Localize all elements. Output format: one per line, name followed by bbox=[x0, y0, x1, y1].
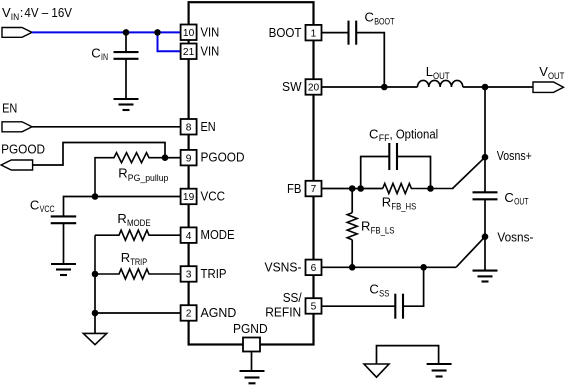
svg-text:OUT: OUT bbox=[514, 197, 529, 207]
junction VIN branch bbox=[154, 29, 161, 36]
svg-text:9: 9 bbox=[186, 153, 192, 164]
svg-text:R: R bbox=[382, 194, 391, 209]
svg-text:SW: SW bbox=[282, 79, 302, 94]
svg-text:C: C bbox=[504, 190, 513, 205]
wire BOOT bbox=[322, 32, 349, 34]
svg-text:V: V bbox=[539, 64, 548, 79]
svg-text:R: R bbox=[118, 166, 127, 181]
resistor RTRIP bbox=[95, 269, 181, 279]
capacitor CSS bbox=[395, 267, 423, 318]
input terminal EN bbox=[2, 122, 32, 132]
svg-text:VIN: VIN bbox=[201, 43, 220, 58]
net label VIN: 4V - 16V bbox=[2, 5, 72, 22]
svg-text:SS: SS bbox=[379, 288, 389, 298]
svg-text:MODE: MODE bbox=[201, 227, 235, 242]
svg-text:PGND: PGND bbox=[233, 321, 268, 336]
junction VOUT bbox=[482, 84, 489, 91]
svg-text:R: R bbox=[117, 211, 126, 226]
svg-text:R: R bbox=[121, 250, 130, 265]
wire AGND bbox=[95, 312, 181, 314]
svg-text:C: C bbox=[365, 10, 374, 25]
svg-text:6: 6 bbox=[311, 263, 317, 274]
value label CSS bbox=[369, 282, 389, 299]
junction SW / CBOOT bbox=[381, 84, 388, 91]
svg-text:FB: FB bbox=[287, 181, 302, 196]
svg-text:2: 2 bbox=[186, 309, 192, 320]
svg-text:VSNS-: VSNS- bbox=[265, 260, 302, 275]
wire AGND rail down bbox=[94, 274, 96, 333]
capacitor CIN bbox=[114, 32, 139, 99]
svg-text:SS/: SS/ bbox=[283, 290, 302, 305]
ground under Vosns- rail bbox=[473, 271, 498, 282]
resistor RPG_pullup bbox=[95, 153, 165, 197]
svg-text:OUT: OUT bbox=[548, 71, 565, 81]
svg-text:C: C bbox=[91, 46, 100, 61]
pin box PGND bbox=[243, 338, 260, 352]
svg-text:1: 1 bbox=[311, 28, 317, 39]
pin box 20 bbox=[306, 79, 322, 95]
output terminal VOUT bbox=[533, 82, 564, 92]
svg-text:VCC: VCC bbox=[201, 189, 226, 204]
capacitor CBOOT bbox=[349, 21, 357, 45]
svg-text:5: 5 bbox=[311, 302, 317, 313]
svg-text:FF: FF bbox=[379, 133, 390, 143]
svg-text:C: C bbox=[369, 126, 378, 141]
analog ground symbol right bbox=[364, 364, 389, 377]
analog ground symbol left bbox=[83, 333, 106, 344]
pin box 7 bbox=[306, 181, 322, 197]
svg-text:L: L bbox=[426, 64, 433, 79]
resistor RFB_HS bbox=[383, 184, 454, 194]
wire VSNS- to Vosns- diagonal bbox=[456, 237, 485, 268]
junction VSNS- / RFB_LS bbox=[349, 264, 356, 271]
capacitor COUT bbox=[473, 157, 498, 237]
pin box 10 bbox=[181, 25, 197, 41]
wire SW bbox=[322, 86, 418, 88]
value label RTRIP bbox=[121, 250, 147, 267]
wire VIN blue horizontal bbox=[32, 31, 181, 33]
svg-text:TRIP: TRIP bbox=[130, 257, 147, 267]
wire FB to Vosns+ diagonal bbox=[453, 157, 486, 188]
wire VSNS- bbox=[322, 266, 457, 268]
wire ground tie bracket bbox=[377, 346, 439, 364]
svg-text:C: C bbox=[30, 197, 39, 212]
junction AGND bbox=[92, 310, 99, 317]
svg-text:VIN: VIN bbox=[201, 24, 220, 39]
svg-text:MODE: MODE bbox=[127, 218, 151, 228]
junction PGOOD / RPG_pullup bbox=[162, 154, 169, 161]
svg-text::: : bbox=[20, 5, 24, 20]
wire VIN blue branch to pin 21 bbox=[158, 32, 181, 51]
svg-text:, Optional: , Optional bbox=[390, 126, 439, 141]
junction Vosns+ bbox=[482, 154, 489, 161]
ground under CVCC bbox=[51, 264, 76, 275]
svg-text:3: 3 bbox=[186, 270, 192, 281]
pin name SS/REFIN bbox=[265, 290, 302, 319]
junction VIN / CIN bbox=[123, 29, 130, 36]
value label RFB_HS bbox=[382, 194, 417, 211]
svg-text:REFIN: REFIN bbox=[265, 304, 301, 319]
value label RMODE bbox=[117, 211, 150, 228]
svg-text:EN: EN bbox=[201, 119, 216, 134]
junction VCC / RPG_pullup bbox=[92, 193, 99, 200]
svg-text:PGOOD: PGOOD bbox=[1, 142, 45, 157]
svg-text:BOOT: BOOT bbox=[374, 16, 395, 26]
pin box 1 bbox=[306, 25, 322, 41]
pin box 3 bbox=[181, 266, 197, 282]
value label COUT bbox=[504, 190, 528, 207]
power ground symbol right bbox=[427, 364, 452, 377]
value label CFF, Optional bbox=[369, 126, 438, 143]
wire VOUT rail down bbox=[484, 87, 486, 157]
svg-text:8: 8 bbox=[186, 122, 192, 133]
svg-text:4V – 16V: 4V – 16V bbox=[24, 5, 72, 20]
svg-text:C: C bbox=[369, 282, 378, 297]
net label VOUT bbox=[539, 64, 565, 81]
wire FB bbox=[322, 188, 383, 190]
svg-text:PG_pullup: PG_pullup bbox=[128, 173, 169, 183]
pin box 5 bbox=[306, 298, 322, 314]
wire pin9 stub bbox=[165, 157, 181, 159]
svg-text:Vosns-: Vosns- bbox=[497, 230, 533, 245]
value label LOUT bbox=[426, 64, 450, 81]
wire EN bbox=[32, 126, 181, 128]
pin box 9 bbox=[181, 150, 197, 166]
pin box 2 bbox=[181, 305, 197, 321]
wire VCC bbox=[64, 197, 181, 217]
pin box 8 bbox=[181, 119, 197, 135]
pin box 19 bbox=[181, 189, 197, 205]
svg-text:19: 19 bbox=[183, 192, 195, 203]
capacitor CVCC bbox=[51, 216, 76, 264]
svg-text:IN: IN bbox=[11, 12, 19, 22]
ground under CIN bbox=[114, 99, 139, 110]
svg-text:VCC: VCC bbox=[40, 204, 55, 214]
capacitor CFF branch bbox=[361, 143, 431, 189]
value label CVCC bbox=[30, 197, 55, 214]
svg-text:7: 7 bbox=[311, 184, 317, 195]
junction VSNS- / CSS bbox=[420, 264, 427, 271]
wire Vosns- rail down bbox=[484, 237, 486, 271]
svg-text:20: 20 bbox=[308, 83, 320, 94]
IC U1 body bbox=[189, 2, 314, 344]
inductor LOUT bbox=[417, 80, 462, 87]
svg-text:21: 21 bbox=[183, 47, 195, 58]
input terminal VIN bbox=[2, 28, 32, 38]
svg-text:4: 4 bbox=[186, 231, 192, 242]
svg-text:FB_HS: FB_HS bbox=[391, 201, 416, 211]
junction FB / RFB_LS bbox=[349, 185, 356, 192]
junction Vosns- bbox=[482, 233, 489, 240]
wire SS/REFIN bbox=[322, 305, 396, 307]
svg-text:10: 10 bbox=[183, 28, 195, 39]
ground under PGND bbox=[240, 371, 265, 383]
resistor RMODE bbox=[95, 230, 181, 274]
junction FB / CFF bbox=[357, 185, 364, 192]
svg-text:PGOOD: PGOOD bbox=[201, 150, 245, 165]
value label RFB_LS bbox=[361, 218, 395, 235]
pin box 6 bbox=[306, 260, 322, 276]
svg-text:OUT: OUT bbox=[433, 71, 450, 81]
junction TRIP bbox=[92, 271, 99, 278]
wire PGND lead bbox=[251, 352, 253, 372]
pin box 4 bbox=[181, 227, 197, 243]
wire SW to VOUT bbox=[463, 86, 533, 88]
svg-text:AGND: AGND bbox=[201, 305, 237, 320]
svg-text:EN: EN bbox=[2, 101, 17, 116]
value label RPG_pullup bbox=[118, 166, 168, 183]
junction RFB_HS right bbox=[427, 185, 434, 192]
wire PGOOD bbox=[33, 143, 165, 166]
svg-text:FB_LS: FB_LS bbox=[371, 225, 395, 235]
resistor RFB_LS bbox=[347, 189, 357, 268]
value label CBOOT bbox=[365, 10, 395, 27]
svg-text:IN: IN bbox=[101, 52, 108, 62]
value label CIN bbox=[91, 46, 108, 63]
svg-text:BOOT: BOOT bbox=[269, 25, 302, 40]
svg-text:R: R bbox=[361, 218, 370, 233]
wire BOOT to SW bbox=[356, 33, 384, 87]
svg-text:Vosns+: Vosns+ bbox=[497, 148, 532, 163]
svg-text:TRIP: TRIP bbox=[201, 266, 227, 281]
svg-text:V: V bbox=[2, 5, 11, 20]
pin box 21 bbox=[181, 44, 197, 60]
output terminal PGOOD bbox=[1, 160, 32, 170]
